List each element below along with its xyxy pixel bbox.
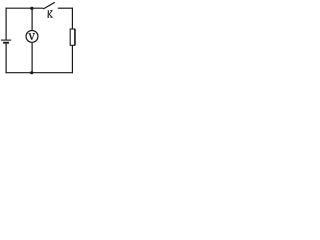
switch K blade [43,2,55,9]
wire right upper [71,8,73,29]
resistor R [70,29,75,45]
node junction dot bottom [30,71,33,74]
wire top-left segment [6,7,44,9]
wire voltmeter branch lower [31,43,33,73]
wire top-right segment [58,7,73,9]
node junction dot top [30,7,33,10]
battery cell long plate [1,39,11,41]
wire voltmeter branch upper [31,8,33,30]
wire left lower [5,44,7,74]
voltmeter label V [29,33,35,39]
wire right lower [71,45,73,73]
battery cell short plate [3,42,9,44]
switch label K [48,11,53,18]
voltmeter U1 circle [26,30,38,42]
wire left upper [5,8,7,40]
wire bottom [6,72,74,74]
